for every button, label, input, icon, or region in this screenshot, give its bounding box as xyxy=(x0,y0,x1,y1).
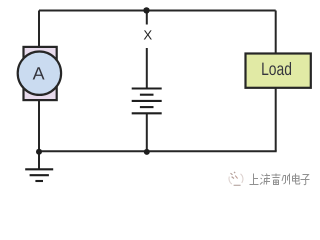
wire battery branch upper (junction to label X) xyxy=(146,11,148,25)
junction ground (ammeter branch / bottom wire) xyxy=(36,149,42,155)
ammeter A (meter dial circle) xyxy=(18,51,61,94)
ground xyxy=(25,169,53,181)
battery X plate 1 (long) xyxy=(132,87,162,89)
battery X plate 5 (long) xyxy=(132,112,162,114)
junction top (battery branch / top wire) xyxy=(143,7,149,13)
load box xyxy=(246,54,311,88)
glyph 电 xyxy=(293,174,301,185)
glyph 海 xyxy=(260,174,270,185)
wire top (node X net) xyxy=(39,10,276,12)
logo mark (faint circular emblem) xyxy=(229,172,243,185)
watermark text 上海雷卯电子 (drawn strokes) xyxy=(250,174,310,185)
wire battery branch (label X to battery top) xyxy=(146,48,148,88)
wire battery bottom stub xyxy=(146,114,148,152)
wire left upper (top wire to ammeter) xyxy=(38,11,40,48)
battery X plate 3 (long) xyxy=(132,100,162,102)
svg-text:Load: Load xyxy=(261,59,292,79)
wire right (top wire through load to bottom wire) xyxy=(275,11,277,152)
glyph 卯 xyxy=(282,174,290,185)
glyph 雷 xyxy=(272,174,281,185)
battery X plate 4 (short) xyxy=(140,106,154,108)
svg-text:X: X xyxy=(143,28,152,43)
glyph 上 xyxy=(250,174,259,185)
glyph 子 xyxy=(301,175,310,185)
junction bottom (battery branch / bottom wire) xyxy=(144,149,150,155)
svg-text:A: A xyxy=(33,64,45,84)
wire bottom (ground net) xyxy=(39,150,277,152)
ammeter A (meter body rectangle) xyxy=(24,47,57,100)
wire left lower (ammeter to ground) xyxy=(38,100,40,170)
battery X plate 2 (short) xyxy=(140,94,154,96)
